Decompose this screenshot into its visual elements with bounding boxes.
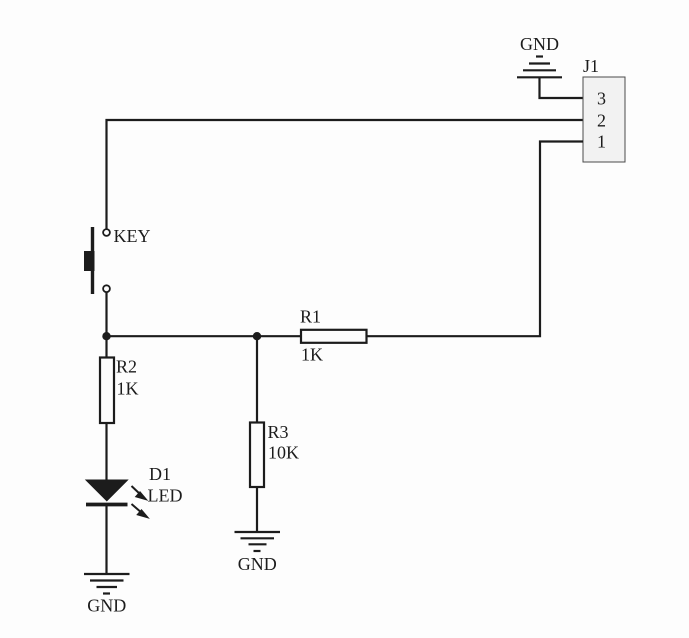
resistor R3 [250, 423, 264, 488]
svg-text:R3: R3 [268, 422, 289, 442]
connector J1 [583, 77, 625, 162]
svg-text:LED: LED [148, 486, 183, 506]
wire: D1 to GND [105, 506, 107, 574]
node A junction dot [102, 332, 110, 340]
wire: node A horizontal to R1 left [107, 335, 302, 337]
svg-text:GND: GND [238, 554, 277, 574]
svg-text:KEY: KEY [114, 226, 151, 246]
svg-text:J1: J1 [583, 56, 599, 76]
svg-text:1: 1 [597, 132, 606, 152]
wire: R3 to GND [256, 487, 258, 532]
wire: node A to R2 [105, 336, 107, 358]
GND (middle, below R3) [235, 532, 281, 551]
svg-text:D1: D1 [149, 464, 171, 484]
GND (top, at J1 pin 3) [517, 57, 562, 78]
wire: R2 to D1 [105, 423, 107, 481]
wire: GND to J1 pin3 [540, 78, 584, 98]
GND (bottom left, below D1) [84, 574, 130, 594]
wire: J1 pin1 down right side to R1 [367, 142, 584, 337]
resistor R1 [301, 330, 367, 343]
svg-text:R2: R2 [116, 357, 137, 377]
svg-text:3: 3 [597, 89, 606, 109]
wire: J1 pin2 to KEY top (net) [107, 120, 584, 229]
resistor R2 [100, 358, 114, 424]
svg-text:2: 2 [597, 111, 606, 131]
node B junction dot [253, 332, 261, 340]
diode D1 (LED) [86, 480, 147, 517]
switch KEY [84, 227, 110, 294]
svg-text:GND: GND [87, 596, 126, 616]
svg-text:R1: R1 [300, 307, 321, 327]
svg-text:GND: GND [520, 34, 559, 54]
svg-text:1K: 1K [301, 345, 323, 365]
wire: node B to R3 [256, 336, 258, 423]
wire: KEY bottom to node A [105, 293, 107, 337]
svg-text:1K: 1K [117, 379, 139, 399]
svg-text:10K: 10K [268, 443, 299, 463]
